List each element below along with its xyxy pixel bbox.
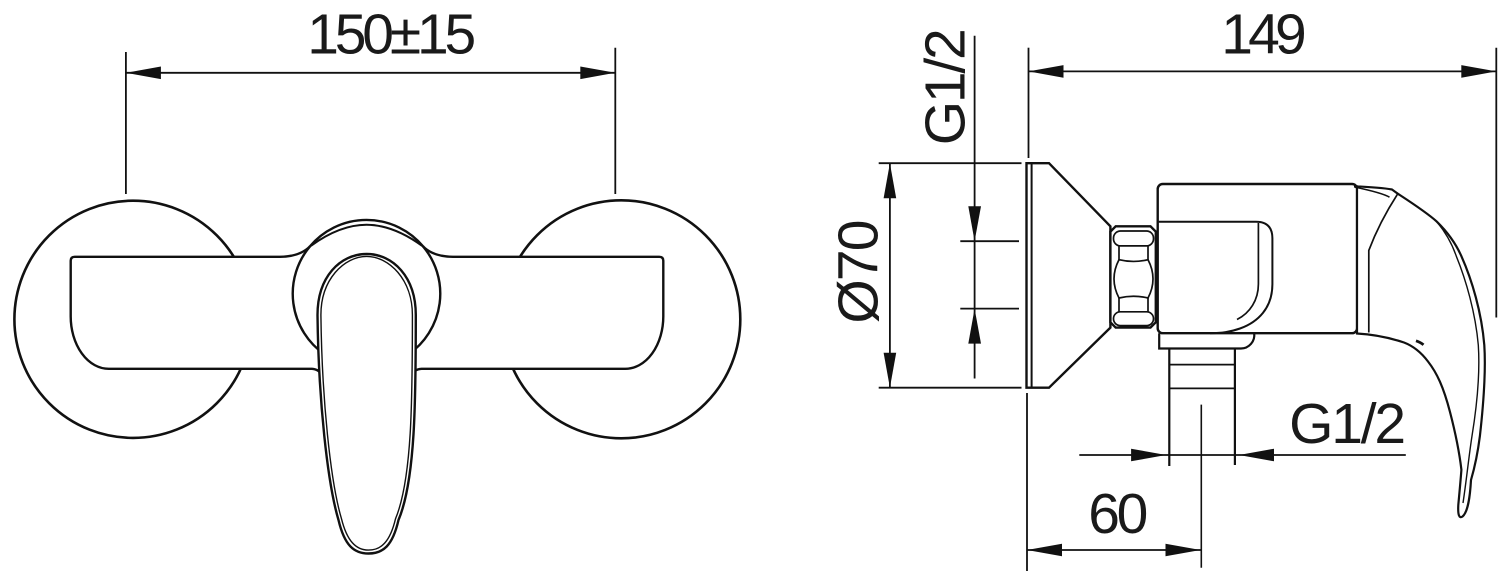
- svg-text:150±15: 150±15: [307, 3, 476, 67]
- svg-text:149: 149: [1221, 3, 1307, 67]
- svg-text:G1/2: G1/2: [914, 28, 978, 145]
- svg-text:G1/2: G1/2: [1289, 392, 1406, 456]
- svg-text:Ø70: Ø70: [827, 220, 891, 324]
- svg-text:60: 60: [1088, 482, 1148, 546]
